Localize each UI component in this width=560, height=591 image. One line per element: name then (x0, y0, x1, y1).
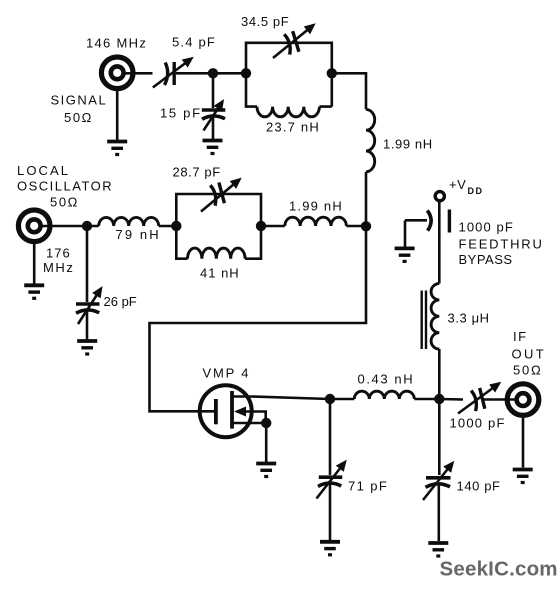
wire (41, 225, 99, 228)
wire (332, 73, 366, 109)
capacitor 15 pF (202, 102, 226, 131)
node tank2-left (171, 221, 181, 231)
svg-text:34.5 pF: 34.5 pF (241, 14, 289, 29)
svg-text:MHz: MHz (43, 260, 75, 275)
node tank2-right (256, 221, 266, 231)
capacitor 26 pF (76, 289, 101, 325)
svg-text:VMP 4: VMP 4 (203, 365, 251, 380)
node drain (325, 394, 335, 404)
node tank1-right (327, 68, 337, 78)
inductor 23.7 nH (257, 107, 319, 117)
svg-text:5.4 pF: 5.4 pF (172, 35, 216, 50)
ground (428, 543, 448, 556)
transistor VMP 4 MOSFET (200, 385, 330, 437)
svg-text:OSCILLATOR: OSCILLATOR (17, 179, 113, 194)
node mixer-gate-feed (361, 221, 371, 231)
wire (265, 423, 268, 462)
svg-text:28.7 pF: 28.7 pF (173, 165, 221, 180)
coax connector IF OUT (507, 384, 539, 416)
svg-text:IF: IF (513, 329, 528, 344)
terminal +VDD (435, 192, 444, 201)
capacitor 1000 pF output (458, 384, 499, 414)
wire (261, 225, 285, 228)
wire (414, 398, 439, 401)
coax connector SIGNAL input (101, 57, 133, 89)
wire (86, 226, 89, 302)
inductor 0.43 nH (354, 391, 414, 399)
capacitor 34.5 pF (273, 25, 314, 58)
wire (438, 201, 441, 284)
wire (212, 73, 215, 108)
ground (203, 141, 223, 154)
svg-text:1000 pF: 1000 pF (459, 220, 514, 235)
ground (24, 285, 44, 298)
svg-text:BYPASS: BYPASS (459, 252, 513, 267)
svg-text:3.3 μH: 3.3 μH (448, 311, 490, 326)
capacitor 140 pF (423, 463, 453, 500)
wire (212, 117, 215, 139)
svg-text:15 pF: 15 pF (160, 106, 202, 121)
svg-text:LOCAL: LOCAL (17, 163, 70, 178)
wire (365, 172, 368, 227)
svg-text:26 pF: 26 pF (104, 294, 137, 309)
wire (86, 311, 89, 340)
coax connector LOCAL OSCILLATOR input (18, 210, 50, 242)
capacitor 5.4 pF (153, 59, 192, 88)
wire (522, 415, 525, 468)
capacitor 1000 pF feedthru bypass (405, 210, 449, 248)
svg-text:41 nH: 41 nH (200, 266, 240, 281)
wire (484, 398, 516, 401)
wire (346, 225, 366, 228)
wire (159, 225, 177, 228)
wire (176, 72, 246, 75)
svg-text:OUT: OUT (512, 347, 547, 362)
svg-text:71 pF: 71 pF (348, 479, 388, 494)
wire (439, 398, 463, 401)
inductor 1.99 nH horizontal (285, 217, 347, 226)
svg-text:FEEDTHRU: FEEDTHRU (459, 236, 544, 251)
svg-text:50Ω: 50Ω (50, 195, 79, 210)
ground (107, 142, 127, 155)
ground (320, 542, 340, 555)
svg-text:1.99 nH: 1.99 nH (289, 198, 343, 213)
ground (513, 470, 533, 483)
wire gate feed (150, 226, 367, 411)
svg-text:1000 pF: 1000 pF (450, 415, 506, 430)
inductor 41 nH (188, 248, 246, 259)
svg-text:SIGNAL: SIGNAL (51, 92, 108, 107)
wire (124, 72, 153, 75)
wire (116, 89, 119, 141)
inductor 3.3 uH (422, 284, 440, 350)
node tank1-left (241, 68, 251, 78)
svg-text:DD: DD (468, 186, 484, 196)
wire 71pF branch (329, 399, 332, 475)
svg-text:79 nH: 79 nH (116, 227, 161, 242)
svg-text:SeekIC.com: SeekIC.com (440, 558, 558, 581)
svg-text:50Ω: 50Ω (64, 110, 93, 125)
wire tank1 box (246, 43, 332, 107)
inductor 79 nH (99, 217, 159, 226)
node signal-shunt (208, 68, 218, 78)
wire (437, 485, 440, 541)
ground (256, 464, 276, 477)
svg-text:0.43 nH: 0.43 nH (358, 371, 415, 386)
svg-text:50Ω: 50Ω (513, 362, 543, 377)
node source (261, 418, 271, 428)
svg-text:146 MHz: 146 MHz (86, 36, 147, 51)
capacitor 28.7 pF (201, 180, 240, 212)
wire drain rail (330, 398, 354, 401)
wire (329, 484, 332, 540)
wire tank2 box (176, 194, 261, 259)
svg-text:1.99 nH: 1.99 nH (383, 137, 433, 152)
capacitor 71 pF (317, 462, 346, 499)
wire 140pF branch (438, 399, 441, 475)
svg-text:+V: +V (449, 177, 466, 192)
wire (33, 242, 36, 285)
ground (77, 341, 97, 354)
svg-text:140 pF: 140 pF (457, 479, 501, 494)
svg-text:176: 176 (46, 246, 71, 261)
node if-tap (434, 394, 444, 404)
node lo-shunt (82, 221, 92, 231)
ground (395, 248, 415, 261)
inductor 1.99 nH vertical (366, 109, 375, 171)
wire (438, 349, 441, 399)
svg-text:23.7 nH: 23.7 nH (266, 120, 320, 135)
